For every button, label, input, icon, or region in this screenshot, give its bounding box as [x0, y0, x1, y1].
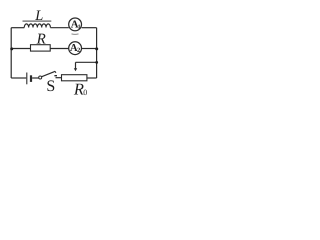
- svg-text:R: R: [36, 32, 46, 48]
- svg-text:0: 0: [83, 88, 87, 97]
- svg-text:2: 2: [77, 47, 80, 54]
- svg-text:S: S: [46, 78, 55, 95]
- svg-text:1: 1: [78, 24, 81, 30]
- svg-text:L: L: [34, 8, 43, 24]
